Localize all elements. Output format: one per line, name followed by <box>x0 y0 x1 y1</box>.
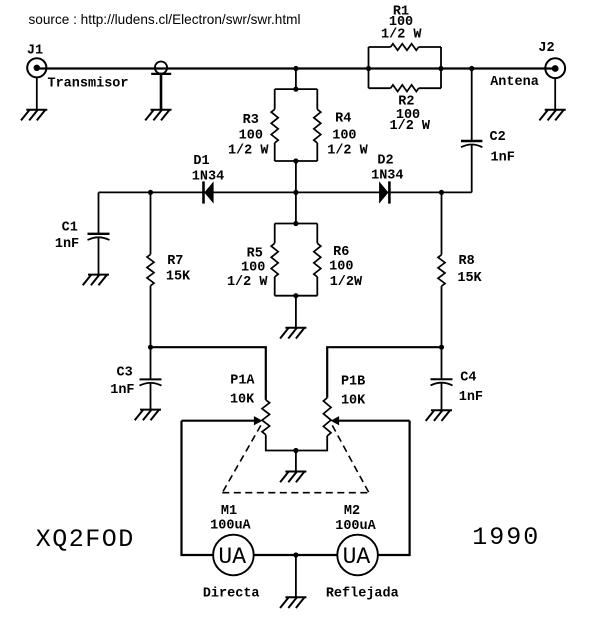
svg-text:J1: J1 <box>27 44 43 59</box>
node R5R6 top <box>293 221 298 226</box>
resistor R8 <box>438 192 483 347</box>
diode D2 <box>371 154 403 204</box>
svg-text:Directa: Directa <box>203 587 260 602</box>
svg-text:10K: 10K <box>230 393 255 408</box>
capacitor C1 <box>55 192 110 274</box>
svg-text:Reflejada: Reflejada <box>326 587 399 602</box>
svg-text:1N34: 1N34 <box>371 169 403 184</box>
svg-text:source : http://ludens.cl/Elec: source : http://ludens.cl/Electron/swr/s… <box>29 12 301 27</box>
wire pot common to ground <box>295 451 297 472</box>
svg-text:M1: M1 <box>221 504 237 519</box>
meter M2 <box>326 504 399 601</box>
svg-text:C2: C2 <box>489 130 505 145</box>
ground R5R6 <box>280 328 306 339</box>
node diode row center <box>293 190 298 195</box>
svg-text:J2: J2 <box>538 41 554 56</box>
svg-text:UA: UA <box>343 544 371 570</box>
wire P1B bottom <box>296 436 327 451</box>
ground pickup <box>145 110 171 121</box>
meter M1 <box>203 504 260 601</box>
node R7 top <box>148 190 153 195</box>
svg-text:100: 100 <box>239 129 263 144</box>
signature XQ2FOD <box>36 525 135 554</box>
wire J2 stem <box>554 78 556 110</box>
dashed gang link bottom <box>222 492 369 494</box>
node C2 top <box>469 66 474 71</box>
svg-text:R8: R8 <box>458 254 474 269</box>
resistor R1 <box>381 4 422 50</box>
node R8 top <box>439 190 444 195</box>
resistor R5 <box>227 243 278 290</box>
wire R1R2 frame <box>369 47 442 88</box>
svg-text:1990: 1990 <box>472 523 540 552</box>
svg-text:1/2W: 1/2W <box>330 275 363 290</box>
ground C1 <box>83 275 109 286</box>
svg-text:P1B: P1B <box>341 375 365 390</box>
resistor R3 <box>228 109 278 158</box>
dashed gang link right <box>332 425 369 492</box>
svg-text:P1A: P1A <box>230 374 255 389</box>
svg-text:Transmisor: Transmisor <box>47 77 128 92</box>
wire top to R3R4 <box>295 69 297 90</box>
pickup loop sensor <box>151 62 171 74</box>
node meter row center <box>293 552 298 557</box>
svg-text:1nF: 1nF <box>110 383 134 398</box>
wire right row to P1B <box>327 347 441 398</box>
wire R5R6 frame <box>275 224 318 296</box>
ground C3 <box>135 410 161 421</box>
svg-text:D1: D1 <box>193 154 209 169</box>
svg-text:1/2 W: 1/2 W <box>381 27 422 42</box>
node top center <box>293 66 298 71</box>
ground J2 <box>539 110 565 121</box>
svg-text:R5: R5 <box>247 246 263 261</box>
wire diode row <box>99 191 472 193</box>
dashed gang link left <box>222 425 260 492</box>
svg-text:UA: UA <box>218 544 246 570</box>
svg-text:XQ2FOD: XQ2FOD <box>36 525 135 554</box>
svg-text:1nF: 1nF <box>55 237 79 252</box>
wire P1A wiper <box>182 416 263 425</box>
svg-text:1N34: 1N34 <box>192 170 224 185</box>
wire top main <box>37 67 555 69</box>
svg-text:R6: R6 <box>333 245 349 260</box>
wire P1A bottom <box>266 435 296 451</box>
potentiometer P1B <box>323 375 366 436</box>
node R1R2 right <box>438 66 443 71</box>
wire R3R4 to diode row <box>295 161 297 224</box>
node R3R4 top <box>293 87 298 92</box>
svg-text:15K: 15K <box>166 270 191 285</box>
node R5R6 bottom <box>293 293 298 298</box>
connector J1 <box>27 44 129 92</box>
svg-text:1nF: 1nF <box>459 390 483 405</box>
svg-text:1/2 W: 1/2 W <box>227 275 268 290</box>
svg-text:D2: D2 <box>377 154 393 169</box>
svg-text:R4: R4 <box>335 112 351 127</box>
ground pots <box>280 472 306 483</box>
wire right vertical to M2 <box>378 421 410 555</box>
svg-text:10K: 10K <box>341 394 366 409</box>
svg-text:R3: R3 <box>243 113 259 128</box>
resistor R4 <box>314 109 369 158</box>
capacitor C3 <box>110 347 161 409</box>
resistor R7 <box>147 192 191 347</box>
ground J1 <box>21 110 47 121</box>
ground C4 <box>426 410 452 421</box>
svg-text:M2: M2 <box>344 504 360 519</box>
node pot common <box>293 448 298 453</box>
node R3R4 bottom <box>293 158 298 163</box>
wire meter row <box>254 554 338 556</box>
svg-text:C4: C4 <box>460 370 476 385</box>
wire P1B wiper <box>331 416 410 425</box>
svg-text:100uA: 100uA <box>210 518 251 533</box>
wire R5R6 to ground <box>295 296 297 328</box>
resistor R2 <box>390 85 431 134</box>
node C3 top <box>148 345 153 350</box>
svg-text:1nF: 1nF <box>491 150 515 165</box>
wire left vertical to M1 <box>182 421 214 555</box>
svg-text:C3: C3 <box>116 366 132 381</box>
wire meter center to ground <box>295 555 297 597</box>
svg-text:R7: R7 <box>167 254 183 269</box>
svg-text:15K: 15K <box>457 271 482 286</box>
potentiometer P1A <box>230 374 270 435</box>
svg-text:1/2 W: 1/2 W <box>327 144 368 159</box>
svg-text:100: 100 <box>241 260 265 275</box>
svg-text:100: 100 <box>332 129 356 144</box>
wire J1 stem <box>36 77 38 109</box>
capacitor C2 <box>461 69 515 193</box>
resistor R6 <box>314 243 363 289</box>
year 1990 <box>472 523 540 552</box>
svg-text:1/2 W: 1/2 W <box>390 119 431 134</box>
svg-text:1/2 W: 1/2 W <box>228 144 269 159</box>
wire R3R4 frame <box>275 89 318 161</box>
capacitor C4 <box>431 347 484 410</box>
svg-text:100: 100 <box>329 260 353 275</box>
node C4 top <box>439 345 444 350</box>
ground meters <box>280 597 306 608</box>
svg-text:100uA: 100uA <box>335 519 376 534</box>
wire pickup stem <box>160 74 163 110</box>
node R1R2 left <box>366 66 371 71</box>
svg-text:C1: C1 <box>62 220 78 235</box>
svg-text:Antena: Antena <box>490 75 539 90</box>
wire left row to P1A <box>151 347 266 400</box>
connector J2 <box>490 41 565 90</box>
diode D1 <box>192 154 224 204</box>
